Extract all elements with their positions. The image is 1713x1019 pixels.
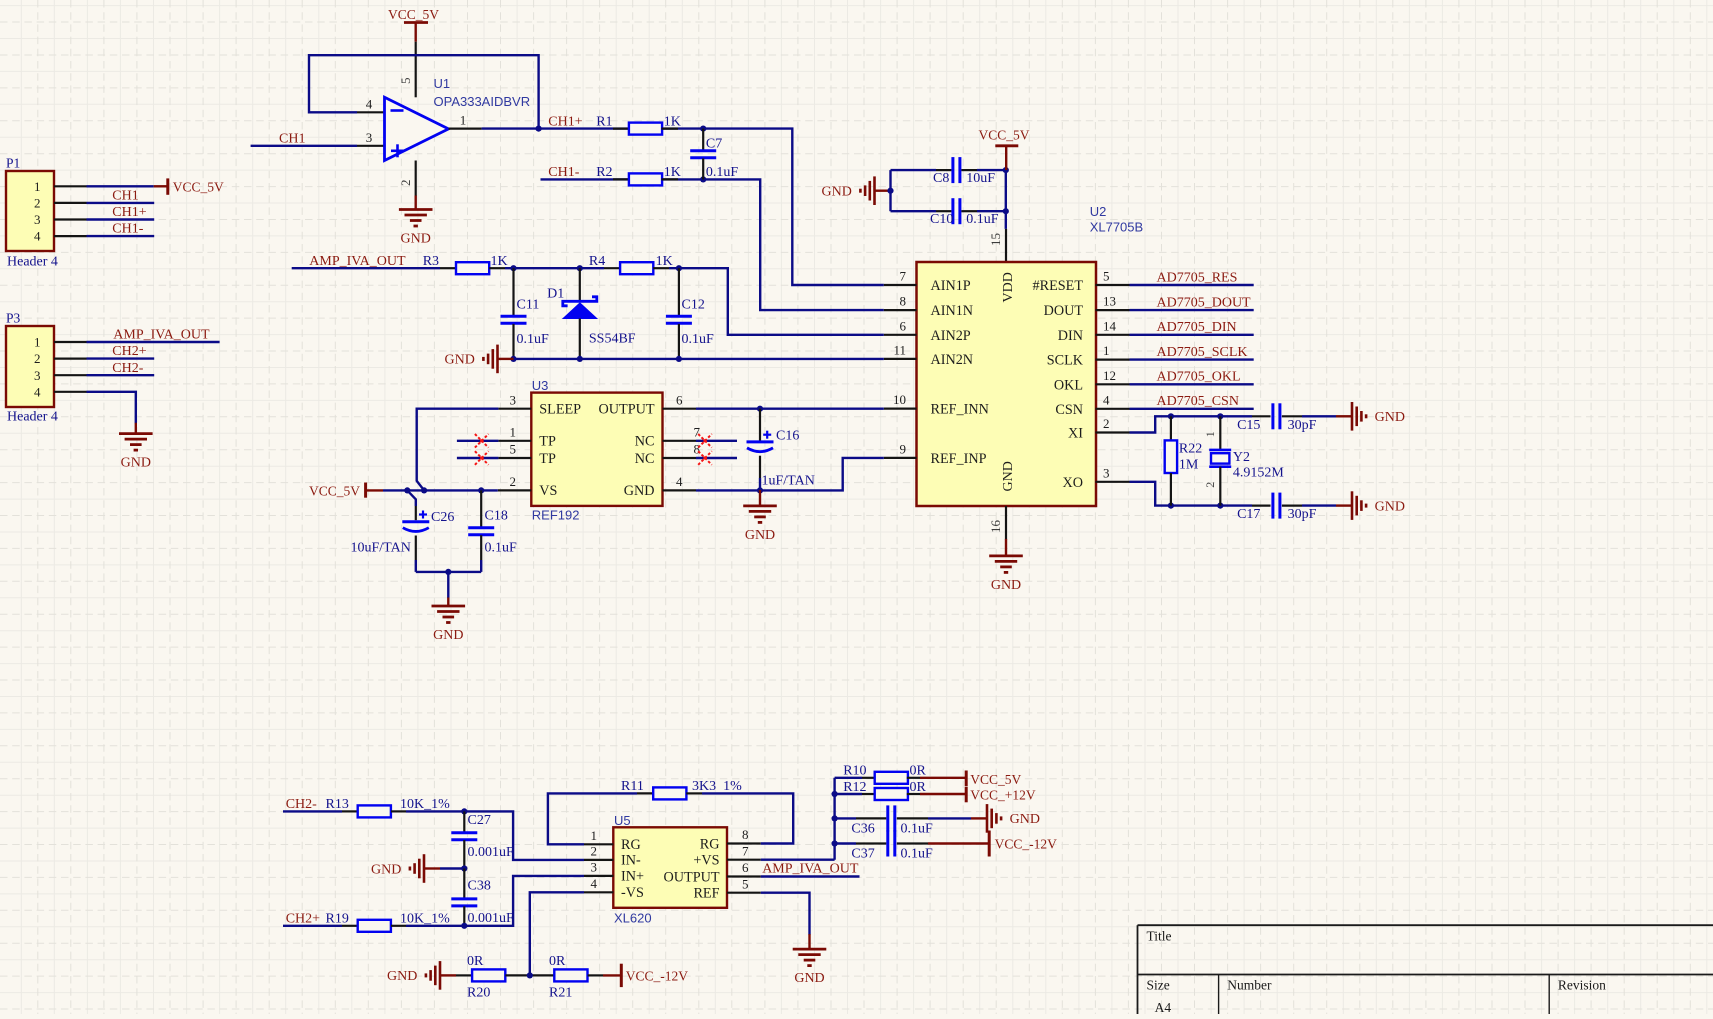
wire U3 GND to REF_INP bbox=[696, 458, 884, 491]
svg-text:11: 11 bbox=[893, 342, 906, 357]
ground GND at U2 bbox=[989, 539, 1023, 573]
svg-text:4: 4 bbox=[591, 876, 598, 891]
R21 pin right bbox=[588, 974, 603, 976]
D1 pin anode bbox=[579, 319, 581, 359]
R3 pin right bbox=[489, 267, 505, 269]
svg-text:OUTPUT: OUTPUT bbox=[664, 869, 720, 885]
junction bbox=[1168, 413, 1174, 419]
svg-text:9: 9 bbox=[900, 441, 907, 456]
R12 pin left bbox=[862, 793, 876, 795]
svg-text:XI: XI bbox=[1068, 426, 1083, 442]
op-amp minus sign bbox=[391, 109, 404, 112]
junction bbox=[536, 126, 542, 132]
C16 pin top bbox=[759, 409, 761, 441]
junction bbox=[461, 865, 467, 871]
resistor R22 bbox=[1165, 440, 1177, 473]
wire AD7705_CSN bbox=[1130, 408, 1254, 410]
C37 pin right bbox=[897, 842, 928, 844]
svg-text:REF_INP: REF_INP bbox=[931, 451, 987, 467]
svg-text:AD7705_CSN: AD7705_CSN bbox=[1157, 394, 1239, 409]
svg-text:7: 7 bbox=[742, 843, 749, 858]
junction bbox=[1168, 503, 1174, 509]
svg-text:2: 2 bbox=[398, 180, 413, 187]
IC U3 REF192 body bbox=[531, 393, 662, 506]
svg-text:14: 14 bbox=[1103, 318, 1117, 333]
svg-text:R10: R10 bbox=[843, 764, 866, 779]
wire CH1 bbox=[87, 202, 155, 204]
capacitor C16 polarized bbox=[747, 431, 774, 452]
svg-text:4: 4 bbox=[366, 97, 373, 112]
U5 pin 7 bbox=[727, 859, 761, 861]
svg-text:C36: C36 bbox=[851, 821, 874, 836]
svg-text:R4: R4 bbox=[589, 254, 605, 269]
wire OUTPUT to REF_INN bbox=[696, 408, 884, 410]
C38 pin bottom bbox=[463, 906, 465, 926]
R2 pin right bbox=[661, 178, 678, 180]
junction bbox=[478, 487, 484, 493]
junction bbox=[1003, 208, 1009, 214]
svg-text:R11: R11 bbox=[621, 779, 644, 794]
power stem VCC_5V bbox=[366, 489, 383, 491]
U3 pin 6 bbox=[663, 408, 697, 410]
wire C15 to GND bbox=[1302, 415, 1336, 417]
wire AD7705_DIN bbox=[1130, 334, 1254, 336]
P3 pin 3 bbox=[54, 374, 87, 376]
svg-text:U5: U5 bbox=[614, 813, 631, 828]
svg-text:C17: C17 bbox=[1237, 507, 1260, 522]
junction bbox=[1003, 167, 1009, 173]
Y2 pin 2 bbox=[1219, 467, 1221, 506]
svg-text:8: 8 bbox=[694, 442, 701, 457]
power stem VCC_-12V bbox=[603, 974, 621, 976]
capacitor C7 bbox=[690, 151, 716, 158]
R13 pin right bbox=[391, 810, 406, 812]
ground GND at U5 REF bbox=[793, 934, 827, 966]
svg-text:30pF: 30pF bbox=[1288, 507, 1317, 522]
svg-text:Title: Title bbox=[1147, 929, 1172, 944]
wire CH2- bbox=[87, 374, 155, 376]
no-connect X bbox=[698, 434, 712, 448]
svg-text:OPA333AIDBVR: OPA333AIDBVR bbox=[434, 94, 531, 109]
svg-text:R13: R13 bbox=[326, 797, 349, 812]
svg-text:0.1uF: 0.1uF bbox=[517, 332, 550, 347]
svg-text:NC: NC bbox=[635, 434, 655, 450]
resistor R3 bbox=[456, 262, 489, 274]
diode D1 SS54BF schottky bbox=[563, 297, 597, 319]
R3 pin left bbox=[440, 267, 456, 269]
U3 pin 5 bbox=[498, 457, 531, 459]
C10 pin right bbox=[961, 210, 977, 212]
capacitor C10 bbox=[953, 198, 960, 224]
C37 pin left bbox=[856, 842, 886, 844]
svg-text:1: 1 bbox=[510, 425, 517, 440]
wire C26-C18 join bbox=[416, 571, 481, 573]
ground GND at C27/C38 bbox=[410, 854, 440, 883]
svg-text:SLEEP: SLEEP bbox=[539, 402, 581, 418]
P3 pin 2 bbox=[54, 358, 87, 360]
power bar VCC_5V at U1 bbox=[404, 21, 428, 24]
svg-text:-VS: -VS bbox=[621, 885, 644, 901]
U1 pin 1 bbox=[449, 128, 482, 130]
U2 pin 14 bbox=[1096, 334, 1130, 336]
C7 pin bottom bbox=[702, 158, 704, 179]
U1 pin 3 bbox=[357, 145, 385, 147]
svg-text:RG: RG bbox=[700, 836, 720, 852]
wire R3 to R4 bbox=[505, 267, 604, 269]
U5 pin 4 bbox=[584, 891, 613, 893]
svg-text:VCC_5V: VCC_5V bbox=[173, 180, 224, 195]
U2 pin 6 bbox=[884, 334, 917, 336]
junction bbox=[676, 356, 682, 362]
svg-text:13: 13 bbox=[1103, 294, 1116, 309]
svg-text:1M: 1M bbox=[1179, 458, 1199, 473]
junction bbox=[510, 356, 516, 362]
svg-text:NC: NC bbox=[635, 451, 655, 467]
resistor R20 bbox=[472, 969, 505, 981]
svg-text:AMP_IVA_OUT: AMP_IVA_OUT bbox=[113, 328, 210, 343]
capacitor C26 polarized bbox=[402, 511, 429, 532]
svg-text:CH2-: CH2- bbox=[112, 361, 143, 376]
svg-text:1K: 1K bbox=[656, 254, 673, 269]
wire AD7705_DOUT bbox=[1130, 309, 1254, 311]
R10 pin right bbox=[907, 777, 920, 779]
C8 pin left bbox=[936, 169, 951, 171]
IC U5 XL620 body bbox=[613, 827, 727, 908]
resistor R12 bbox=[875, 788, 908, 800]
svg-text:OKL: OKL bbox=[1054, 377, 1083, 393]
junction bbox=[461, 923, 467, 929]
svg-text:CH1+: CH1+ bbox=[112, 205, 146, 220]
R12 pin right bbox=[907, 793, 920, 795]
wire P1.1 to VCC_5V bbox=[87, 185, 154, 187]
wire CH2+ to R19 bbox=[283, 925, 342, 927]
resistor R4 bbox=[620, 262, 653, 274]
wire CH2+ bbox=[87, 357, 155, 359]
svg-text:5: 5 bbox=[1103, 269, 1110, 284]
U2 pin 3 bbox=[1096, 481, 1130, 483]
svg-text:6: 6 bbox=[742, 860, 749, 875]
svg-text:10uF: 10uF bbox=[966, 171, 995, 186]
U1 pin 2 bbox=[415, 161, 417, 197]
svg-text:0R: 0R bbox=[910, 764, 927, 779]
svg-text:1: 1 bbox=[34, 335, 41, 350]
C12 pin top bbox=[678, 268, 680, 315]
U5 pin 8 bbox=[727, 842, 761, 844]
C16 pin bottom bbox=[759, 456, 761, 478]
title block frame bbox=[1138, 925, 1713, 1014]
wire -VS to R20/R21 bbox=[530, 892, 584, 975]
svg-text:0.1uF: 0.1uF bbox=[682, 332, 715, 347]
svg-text:5: 5 bbox=[742, 876, 749, 891]
svg-text:C18: C18 bbox=[485, 509, 508, 524]
svg-text:3: 3 bbox=[366, 130, 373, 145]
junction bbox=[1217, 503, 1223, 509]
svg-text:1: 1 bbox=[1203, 431, 1217, 437]
C27 pin bottom bbox=[463, 840, 465, 868]
svg-text:C10: C10 bbox=[930, 212, 953, 227]
wire XI rail bbox=[1130, 416, 1253, 432]
U3 pin 8 bbox=[663, 457, 697, 459]
wire AD7705_RES bbox=[1130, 284, 1254, 286]
junction bbox=[832, 815, 838, 821]
svg-text:12: 12 bbox=[1103, 368, 1116, 383]
svg-text:0.1uF: 0.1uF bbox=[706, 165, 739, 180]
power stem VCC_5V bbox=[415, 23, 417, 42]
svg-text:REF: REF bbox=[693, 886, 719, 902]
svg-text:CH1-: CH1- bbox=[548, 165, 579, 180]
wire to C36 bbox=[835, 817, 856, 819]
ground GND at C8/C10 bbox=[860, 176, 890, 205]
capacitor C36 bbox=[888, 805, 895, 831]
svg-text:Y2: Y2 bbox=[1233, 450, 1250, 465]
svg-text:CH1: CH1 bbox=[112, 189, 138, 204]
svg-text:15: 15 bbox=[988, 233, 1003, 246]
P1 pin 3 bbox=[54, 218, 87, 220]
U5 pin 1 bbox=[584, 843, 613, 845]
connector P1 bbox=[6, 171, 54, 251]
wire XO rail bbox=[1130, 482, 1253, 506]
svg-text:10uF/TAN: 10uF/TAN bbox=[351, 541, 411, 556]
junction bbox=[421, 487, 427, 493]
svg-text:7: 7 bbox=[900, 269, 907, 284]
U2 pin 16 bbox=[1005, 506, 1007, 539]
junction bbox=[527, 972, 533, 978]
svg-text:GND: GND bbox=[1001, 461, 1016, 491]
svg-text:6: 6 bbox=[900, 318, 907, 333]
svg-text:C15: C15 bbox=[1237, 418, 1260, 433]
C18 pin bottom bbox=[480, 535, 482, 560]
svg-text:0.1uF: 0.1uF bbox=[901, 821, 934, 836]
P1 pin 2 bbox=[54, 202, 87, 204]
wire to R12 bbox=[835, 793, 862, 795]
ground GND at C26/C18 bbox=[432, 598, 466, 623]
P1 pin 1 bbox=[54, 185, 87, 187]
D1 pin cathode bbox=[579, 268, 581, 301]
svg-text:P3: P3 bbox=[6, 311, 21, 326]
svg-text:C7: C7 bbox=[706, 137, 722, 152]
svg-text:GND: GND bbox=[387, 969, 417, 984]
svg-text:16: 16 bbox=[988, 520, 1003, 534]
svg-text:VCC_5V: VCC_5V bbox=[309, 483, 360, 498]
resistor R13 bbox=[358, 805, 391, 817]
U3 pin 2 bbox=[498, 489, 532, 491]
Y2 pin 1 bbox=[1219, 416, 1221, 450]
power bar VCC_-12V bbox=[988, 831, 991, 857]
svg-text:4.9152M: 4.9152M bbox=[1233, 466, 1285, 481]
svg-text:2: 2 bbox=[510, 474, 517, 489]
P3 pin 1 bbox=[54, 341, 87, 343]
C18 pin top bbox=[480, 490, 482, 527]
svg-text:DIN: DIN bbox=[1058, 328, 1083, 344]
junction bbox=[700, 126, 706, 132]
U2 pin 9 bbox=[884, 457, 917, 459]
svg-text:R19: R19 bbox=[326, 911, 349, 926]
svg-text:2: 2 bbox=[1203, 482, 1217, 488]
R10 pin left bbox=[862, 777, 876, 779]
R1 pin right bbox=[661, 128, 678, 130]
ground GND at C17 bbox=[1336, 491, 1366, 520]
U5 pin 3 bbox=[584, 875, 613, 877]
wire TP pin1 bbox=[457, 440, 499, 442]
svg-text:+VS: +VS bbox=[693, 853, 719, 869]
power bar VCC_+12V bbox=[965, 787, 968, 803]
wire CH1+ bbox=[87, 218, 155, 220]
svg-text:3: 3 bbox=[34, 368, 41, 383]
svg-text:AIN2P: AIN2P bbox=[931, 328, 971, 344]
svg-text:8: 8 bbox=[900, 294, 907, 309]
power stem VCC_-12V bbox=[928, 842, 989, 844]
svg-text:CH1-: CH1- bbox=[112, 222, 143, 237]
wire GND rail to AIN2N bbox=[514, 358, 884, 360]
svg-text:3: 3 bbox=[34, 212, 41, 227]
capacitor C27 bbox=[451, 833, 477, 840]
svg-text:XL7705B: XL7705B bbox=[1090, 220, 1144, 235]
svg-text:CH2+: CH2+ bbox=[286, 911, 320, 926]
svg-text:#RESET: #RESET bbox=[1033, 278, 1084, 294]
svg-text:IN+: IN+ bbox=[621, 869, 644, 885]
svg-text:AD7705_DOUT: AD7705_DOUT bbox=[1157, 296, 1252, 311]
wire AMP_IVA_OUT bbox=[761, 875, 860, 877]
wire SLEEP to VCC bbox=[417, 409, 499, 491]
power stem VCC_5V bbox=[1005, 146, 1007, 170]
svg-text:3K3 1%: 3K3 1% bbox=[692, 779, 742, 794]
svg-text:5: 5 bbox=[510, 442, 517, 457]
svg-text:Header 4: Header 4 bbox=[7, 255, 58, 270]
svg-text:4: 4 bbox=[34, 229, 41, 244]
C17 pin left bbox=[1252, 505, 1271, 507]
svg-text:1: 1 bbox=[460, 112, 467, 127]
power bar VCC_5V at U2 bbox=[995, 144, 1018, 147]
svg-text:Header 4: Header 4 bbox=[7, 410, 58, 425]
C7 pin top bbox=[702, 129, 704, 150]
U3 pin 1 bbox=[498, 440, 531, 442]
capacitor C12 bbox=[666, 316, 692, 323]
svg-text:VCC_+12V: VCC_+12V bbox=[970, 788, 1036, 803]
ground GND at C36 bbox=[971, 804, 1001, 833]
svg-text:3: 3 bbox=[591, 860, 598, 875]
wire C17 to GND bbox=[1302, 504, 1336, 506]
wire to C37 bbox=[835, 842, 856, 844]
svg-text:XO: XO bbox=[1063, 475, 1084, 491]
junction bbox=[676, 265, 682, 271]
U2 pin 13 bbox=[1096, 309, 1130, 311]
C15 pin left bbox=[1252, 415, 1271, 417]
resistor R21 bbox=[554, 969, 587, 981]
junction bbox=[1217, 413, 1223, 419]
svg-text:C16: C16 bbox=[776, 429, 799, 444]
svg-text:VCC_-12V: VCC_-12V bbox=[626, 968, 689, 983]
capacitor C18 bbox=[468, 528, 494, 535]
ground GND at C11 bbox=[483, 345, 513, 374]
svg-text:4: 4 bbox=[34, 384, 41, 399]
svg-text:30pF: 30pF bbox=[1288, 418, 1317, 433]
wire P3.4 to GND bbox=[87, 392, 136, 424]
wire C8 to VCC bbox=[977, 169, 1006, 171]
svg-text:CH1+: CH1+ bbox=[548, 114, 582, 129]
svg-text:VCC_5V: VCC_5V bbox=[388, 7, 439, 22]
svg-text:VDD: VDD bbox=[1001, 272, 1016, 302]
U3 pin 7 bbox=[663, 440, 697, 442]
wire CH1+ to AIN1P bbox=[482, 129, 884, 285]
svg-text:C11: C11 bbox=[517, 298, 540, 313]
svg-text:R3: R3 bbox=[423, 254, 439, 269]
wire NC pin7 bbox=[696, 440, 737, 442]
ground GND at C15 bbox=[1336, 402, 1366, 431]
ground GND at R20 bbox=[426, 961, 456, 990]
capacitor C11 bbox=[501, 316, 527, 323]
no-connect X bbox=[475, 451, 489, 465]
svg-text:1K: 1K bbox=[664, 165, 681, 180]
svg-text:AD7705_DIN: AD7705_DIN bbox=[1157, 320, 1237, 335]
R19 pin right bbox=[391, 925, 406, 927]
R22 pin bottom bbox=[1170, 473, 1172, 506]
op-amp plus sign bbox=[391, 150, 404, 153]
junction bbox=[461, 808, 467, 814]
feedback wire U1 bbox=[309, 55, 539, 128]
svg-text:SS54BF: SS54BF bbox=[589, 332, 636, 347]
svg-text:2: 2 bbox=[1103, 416, 1110, 431]
svg-text:VCC_5V: VCC_5V bbox=[970, 772, 1021, 787]
svg-text:C12: C12 bbox=[682, 298, 705, 313]
op-amp U1 triangle bbox=[385, 97, 449, 160]
svg-text:C27: C27 bbox=[468, 813, 491, 828]
R11 pin left bbox=[637, 792, 653, 794]
C36 pin left bbox=[856, 817, 886, 819]
svg-text:R1: R1 bbox=[596, 114, 612, 129]
U3 pin 3 bbox=[498, 408, 531, 410]
capacitor C37 bbox=[888, 831, 895, 857]
svg-text:R22: R22 bbox=[1179, 441, 1202, 456]
capacitor C17 bbox=[1273, 493, 1280, 519]
C11 pin top bbox=[512, 268, 514, 315]
U5 pin 6 bbox=[727, 875, 761, 877]
svg-text:C8: C8 bbox=[933, 171, 949, 186]
svg-text:0.1uF: 0.1uF bbox=[485, 541, 518, 556]
no-connect X bbox=[475, 434, 489, 448]
svg-text:GND: GND bbox=[991, 578, 1021, 593]
svg-text:1uF/TAN: 1uF/TAN bbox=[762, 474, 815, 489]
svg-text:2: 2 bbox=[591, 844, 598, 859]
wire CH1 to U1+ bbox=[251, 145, 357, 147]
R4 pin right bbox=[653, 267, 669, 269]
svg-text:1: 1 bbox=[591, 828, 598, 843]
svg-text:GND: GND bbox=[1375, 499, 1405, 514]
svg-text:REF192: REF192 bbox=[532, 508, 580, 523]
C11 pin bottom bbox=[512, 324, 514, 359]
svg-text:R21: R21 bbox=[549, 985, 572, 1000]
ground GND at C16 bbox=[743, 490, 777, 523]
svg-text:10: 10 bbox=[893, 392, 906, 407]
R22 pin top bbox=[1170, 416, 1172, 440]
resistor R1 bbox=[629, 123, 662, 135]
wire CH1- to AIN1N bbox=[541, 179, 884, 310]
C17 pin right bbox=[1282, 505, 1302, 507]
svg-text:7: 7 bbox=[694, 425, 701, 440]
wire C18 bottom bbox=[480, 560, 482, 572]
svg-text:U3: U3 bbox=[532, 378, 549, 393]
C26 pin bottom bbox=[415, 536, 417, 561]
junction bbox=[757, 406, 763, 412]
C26 pin top bbox=[415, 506, 417, 520]
wire GND to C27/C38 bbox=[440, 867, 464, 869]
svg-text:CH1: CH1 bbox=[279, 131, 305, 146]
R11 pin right bbox=[686, 792, 702, 794]
svg-text:8: 8 bbox=[742, 827, 749, 842]
wire AMP_IVA_OUT to R3 bbox=[292, 267, 440, 269]
junction bbox=[887, 188, 893, 194]
wire AD7705_OKL bbox=[1130, 383, 1254, 385]
svg-text:GND: GND bbox=[794, 971, 824, 986]
